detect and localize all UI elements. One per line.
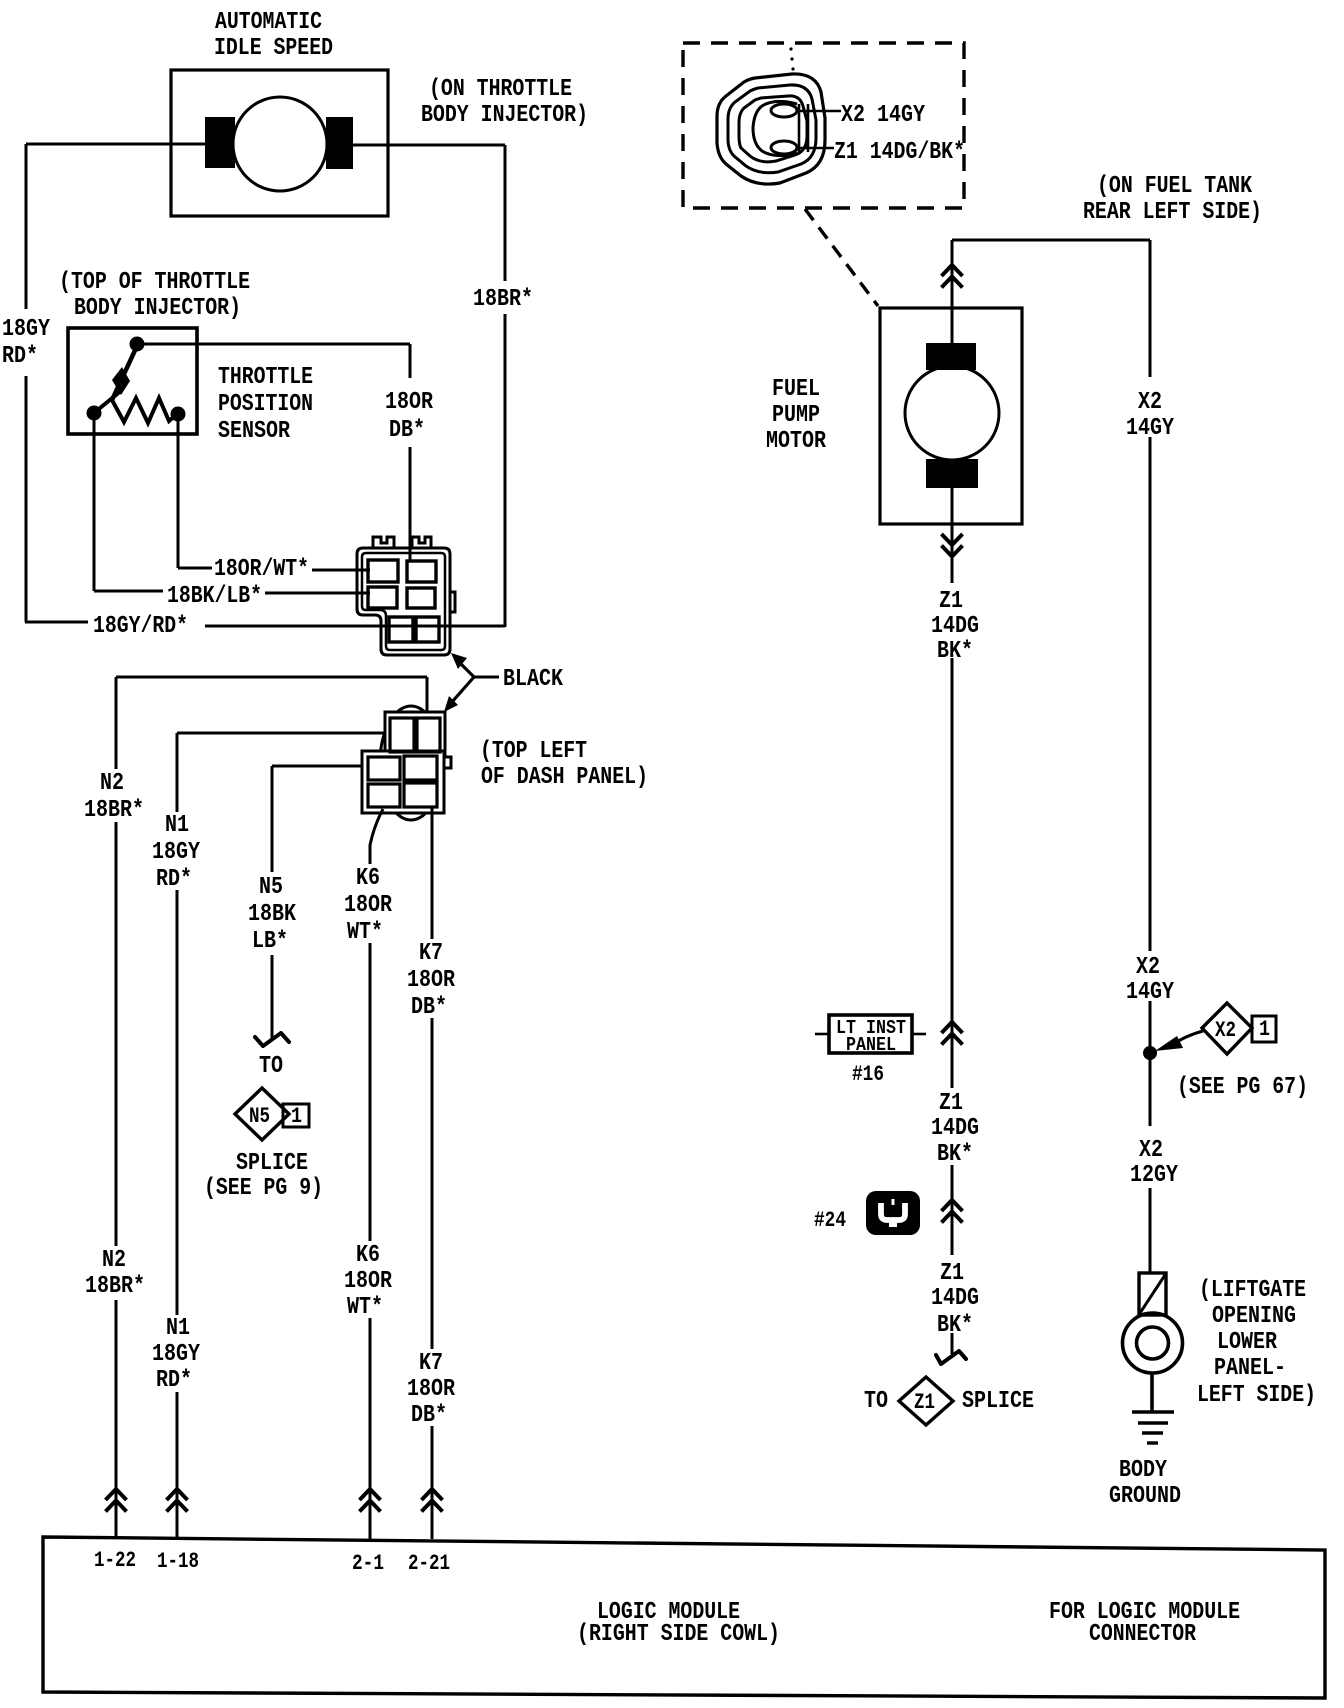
label BLACK with arrows to connectors bbox=[444, 653, 563, 712]
svg-text:X2 14GY: X2 14GY bbox=[841, 102, 925, 129]
svg-text:18OR: 18OR bbox=[385, 389, 433, 416]
svg-text:THROTTLE: THROTTLE bbox=[218, 364, 313, 391]
connector C1 (black 6-way) bbox=[357, 537, 455, 655]
svg-text:PUMP: PUMP bbox=[772, 402, 820, 429]
svg-text:TO: TO bbox=[259, 1053, 283, 1080]
svg-text:(SEE PG 67): (SEE PG 67) bbox=[1177, 1074, 1308, 1101]
ring terminal (liftgate ground) bbox=[1123, 1273, 1183, 1373]
svg-text:Z1: Z1 bbox=[940, 1260, 964, 1287]
svg-text:14DG: 14DG bbox=[931, 1115, 979, 1142]
note (ON FUEL TANK REAR LEFT SIDE) bbox=[1083, 173, 1262, 226]
svg-text:Z1: Z1 bbox=[914, 1390, 935, 1415]
label Z1 14DG BK* (2) bbox=[931, 1090, 979, 1168]
wire Z1 long vertical bbox=[942, 658, 963, 1088]
junction to connector X2-1 bbox=[1143, 1046, 1157, 1060]
svg-text:18BK: 18BK bbox=[248, 901, 296, 928]
svg-text:SENSOR: SENSOR bbox=[218, 418, 290, 445]
label X2 14GY (1) bbox=[1126, 389, 1174, 442]
wire N5 18BK LB* vertical bbox=[271, 766, 274, 1039]
svg-text:MOTOR: MOTOR bbox=[766, 428, 826, 455]
connector C2 (black 6-way, top left of dash panel) bbox=[362, 706, 451, 820]
svg-text:18BK/LB*: 18BK/LB* bbox=[167, 583, 262, 610]
svg-text:BODY: BODY bbox=[1119, 1457, 1167, 1484]
svg-text:#16: #16 bbox=[852, 1062, 884, 1087]
svg-text:N2: N2 bbox=[100, 770, 124, 797]
svg-text:BLACK: BLACK bbox=[503, 666, 563, 693]
svg-text:18BR*: 18BR* bbox=[473, 286, 533, 313]
label N1 18GY RD* (lower) bbox=[152, 1315, 200, 1394]
label 18BK/LB* bbox=[167, 583, 262, 610]
label 18BR* (right wire) bbox=[473, 286, 533, 313]
label FUEL PUMP MOTOR bbox=[766, 376, 826, 455]
svg-text:X2: X2 bbox=[1138, 389, 1162, 416]
svg-text:N2: N2 bbox=[102, 1247, 126, 1274]
svg-text:1-22: 1-22 bbox=[94, 1548, 136, 1573]
wire to body ground bbox=[1150, 1373, 1154, 1412]
note (ON THROTTLE BODY INJECTOR) bbox=[421, 76, 588, 129]
svg-text:SPLICE: SPLICE bbox=[962, 1388, 1034, 1415]
pin 2-1 bbox=[352, 1551, 384, 1576]
svg-text:18OR: 18OR bbox=[407, 967, 455, 994]
svg-text:K6: K6 bbox=[356, 1242, 380, 1269]
svg-text:18OR: 18OR bbox=[407, 1376, 455, 1403]
svg-text:18BR*: 18BR* bbox=[84, 797, 144, 824]
svg-text:K7: K7 bbox=[419, 1350, 443, 1377]
svg-text:(LIFTGATE: (LIFTGATE bbox=[1199, 1277, 1306, 1304]
fuel pump motor bbox=[880, 308, 1022, 524]
label N2 18BR* (upper) bbox=[84, 770, 144, 824]
label TO bbox=[259, 1053, 283, 1080]
C1 top tabs bbox=[373, 537, 394, 548]
label K6 18OR WT* (lower) bbox=[344, 1242, 392, 1321]
svg-text:N5: N5 bbox=[249, 1104, 270, 1129]
svg-text:OF DASH PANEL): OF DASH PANEL) bbox=[481, 764, 648, 791]
wire 18OR/WT* from TPS right terminal bbox=[178, 420, 370, 570]
svg-text:BK*: BK* bbox=[937, 1312, 973, 1339]
svg-text:TO: TO bbox=[864, 1388, 888, 1415]
svg-text:K7: K7 bbox=[419, 940, 443, 967]
svg-text:LOWER: LOWER bbox=[1217, 1329, 1277, 1356]
fuel pump connector face bbox=[717, 47, 825, 184]
wire N2 horizontal to connector C2 bbox=[116, 677, 427, 720]
splice reference N5-1 bbox=[235, 1088, 309, 1140]
wire N1 18GY RD* vertical bbox=[167, 733, 188, 1539]
TPS resistor element bbox=[94, 390, 122, 413]
label SPLICE (SEE PG 9) bbox=[204, 1150, 323, 1202]
svg-text:RD*: RD* bbox=[2, 343, 38, 370]
svg-text:#24: #24 bbox=[814, 1208, 846, 1233]
svg-text:X2: X2 bbox=[1136, 954, 1160, 981]
svg-text:LB*: LB* bbox=[252, 928, 288, 955]
svg-text:18GY: 18GY bbox=[2, 316, 50, 343]
svg-text:CONNECTOR: CONNECTOR bbox=[1089, 1621, 1196, 1648]
svg-text:PANEL: PANEL bbox=[846, 1034, 896, 1056]
connector ref X2-1 bbox=[1155, 1003, 1276, 1054]
svg-text:OPENING: OPENING bbox=[1212, 1303, 1296, 1330]
svg-text:PANEL-: PANEL- bbox=[1214, 1355, 1286, 1382]
leader and label X2 14GY (connector face) bbox=[797, 102, 925, 129]
wire fuel pump feed (top) bbox=[942, 240, 963, 350]
svg-text:14GY: 14GY bbox=[1126, 979, 1174, 1006]
splice reference Z1 bbox=[899, 1377, 953, 1425]
svg-text:2-21: 2-21 bbox=[408, 1551, 450, 1576]
body ground symbol bbox=[1132, 1412, 1174, 1443]
svg-text:18GY/RD*: 18GY/RD* bbox=[93, 613, 188, 640]
svg-text:18GY: 18GY bbox=[152, 1341, 200, 1368]
svg-text:LEFT SIDE): LEFT SIDE) bbox=[1197, 1382, 1316, 1409]
C1 pins bbox=[368, 560, 398, 582]
svg-text:AUTOMATIC: AUTOMATIC bbox=[215, 9, 322, 36]
svg-text:DB*: DB* bbox=[411, 1402, 447, 1429]
label K7 18OR DB* (lower) bbox=[407, 1350, 455, 1429]
svg-text:WT*: WT* bbox=[347, 1294, 383, 1321]
label THROTTLE POSITION SENSOR bbox=[218, 364, 313, 445]
wire N2 18BR* vertical bbox=[106, 677, 127, 1539]
svg-text:(TOP LEFT: (TOP LEFT bbox=[480, 738, 587, 765]
svg-text:Z1: Z1 bbox=[939, 588, 963, 615]
wire N1 horizontal to connector C2 bbox=[177, 732, 393, 735]
wire 18OR DB* from TPS wiper to connector C1 bbox=[143, 344, 410, 562]
label SPLICE bbox=[962, 1388, 1034, 1415]
dashed detail box (fuel pump connector face) bbox=[683, 43, 964, 208]
svg-text:BODY INJECTOR): BODY INJECTOR) bbox=[74, 295, 241, 322]
label N1 18GY RD* (upper) bbox=[152, 812, 200, 893]
label TO bbox=[864, 1388, 888, 1415]
pin 2-21 bbox=[408, 1551, 450, 1576]
note (TOP OF THROTTLE BODY INJECTOR) bbox=[59, 269, 250, 322]
svg-text:2-1: 2-1 bbox=[352, 1551, 384, 1576]
wire 18BR* from AIS motor right pin bbox=[350, 145, 505, 627]
svg-text:N5: N5 bbox=[259, 874, 283, 901]
svg-text:REAR LEFT SIDE): REAR LEFT SIDE) bbox=[1083, 199, 1262, 226]
connector ref LT INST PANEL #16 bbox=[815, 1015, 926, 1087]
svg-text:POSITION: POSITION bbox=[218, 391, 313, 418]
svg-text:K6: K6 bbox=[356, 865, 380, 892]
label 18GY RD* (left) bbox=[2, 316, 50, 370]
throttle position sensor TPS bbox=[68, 328, 197, 434]
leader and label Z1 14DG/BK* (connector face) bbox=[797, 139, 965, 166]
grommet #24 bbox=[814, 1191, 920, 1235]
dashed leader from detail box to fuel pump bbox=[805, 209, 878, 306]
TPS terminal dots bbox=[130, 337, 145, 352]
svg-text:DB*: DB* bbox=[389, 417, 425, 444]
svg-text:12GY: 12GY bbox=[1130, 1162, 1178, 1189]
wire 18GY/RD* from AIS motor left pin bbox=[25, 144, 505, 626]
label N5 18BK LB* bbox=[248, 874, 296, 955]
svg-text:1: 1 bbox=[291, 1104, 302, 1129]
svg-text:18BR*: 18BR* bbox=[85, 1273, 145, 1300]
label K7 18OR DB* (upper) bbox=[407, 940, 455, 1021]
svg-text:FUEL: FUEL bbox=[772, 376, 820, 403]
label Z1 14DG BK* (1) bbox=[931, 588, 979, 665]
svg-text:N1: N1 bbox=[165, 812, 189, 839]
svg-text:DB*: DB* bbox=[411, 994, 447, 1021]
svg-text:RD*: RD* bbox=[156, 866, 192, 893]
label 18OR DB* bbox=[385, 389, 433, 444]
wire Z1 from fuel pump (down) bbox=[942, 488, 963, 583]
note (SEE PG 67) bbox=[1177, 1074, 1308, 1101]
note (LIFTGATE OPENING LOWER PANEL- LEFT SIDE) bbox=[1197, 1277, 1316, 1409]
svg-text:BK*: BK* bbox=[937, 1141, 973, 1168]
svg-text:18OR: 18OR bbox=[344, 1268, 392, 1295]
label K6 18OR WT* (upper) bbox=[344, 865, 392, 946]
pin 1-22 bbox=[94, 1548, 136, 1573]
svg-text:Z1 14DG/BK*: Z1 14DG/BK* bbox=[834, 139, 965, 166]
label FOR LOGIC MODULE CONNECTOR bbox=[1049, 1599, 1240, 1648]
label N2 18BR* (lower) bbox=[85, 1247, 145, 1300]
svg-text:GROUND: GROUND bbox=[1109, 1483, 1181, 1510]
label Z1 14DG BK* (3) bbox=[931, 1260, 979, 1339]
label LOGIC MODULE (RIGHT SIDE COWL) bbox=[577, 1599, 780, 1648]
wire X2 14GY vertical bbox=[1149, 240, 1152, 1274]
svg-text:14GY: 14GY bbox=[1126, 415, 1174, 442]
wire 18BK/LB* from TPS left terminal bbox=[94, 420, 370, 593]
svg-text:14DG: 14DG bbox=[931, 613, 979, 640]
svg-text:(ON THROTTLE: (ON THROTTLE bbox=[429, 76, 572, 103]
wire Z1 segment with in-line connector bbox=[942, 1165, 963, 1255]
AIS motor M1 (automatic idle speed) bbox=[171, 70, 388, 216]
svg-text:Z1: Z1 bbox=[939, 1090, 963, 1117]
label BODY GROUND bbox=[1109, 1457, 1181, 1510]
svg-text:(TOP OF THROTTLE: (TOP OF THROTTLE bbox=[59, 269, 250, 296]
svg-text:1-18: 1-18 bbox=[157, 1549, 199, 1574]
wire break symbol Z1 bbox=[936, 1333, 966, 1364]
C1 side latch bbox=[450, 592, 455, 612]
svg-text:(RIGHT SIDE COWL): (RIGHT SIDE COWL) bbox=[577, 1621, 780, 1648]
wire K6 18OR WT* vertical bbox=[360, 809, 384, 1539]
svg-text:X2: X2 bbox=[1139, 1137, 1163, 1164]
logic module box bbox=[43, 1537, 1325, 1698]
label X2 12GY bbox=[1130, 1137, 1178, 1189]
svg-text:BK*: BK* bbox=[937, 638, 973, 665]
svg-text:14DG: 14DG bbox=[931, 1285, 979, 1312]
wire N5 horizontal to connector C2 bbox=[272, 765, 371, 768]
svg-text:IDLE SPEED: IDLE SPEED bbox=[214, 35, 333, 62]
wire K7 18OR DB* vertical bbox=[422, 807, 443, 1539]
svg-text:X2: X2 bbox=[1215, 1018, 1236, 1043]
svg-text:18OR/WT*: 18OR/WT* bbox=[214, 556, 309, 583]
label 18OR/WT* bbox=[214, 556, 309, 583]
TPS wiper arm bbox=[112, 346, 137, 400]
svg-text:RD*: RD* bbox=[156, 1367, 192, 1394]
svg-text:(SEE PG 9): (SEE PG 9) bbox=[204, 1175, 323, 1202]
svg-text:1: 1 bbox=[1259, 1017, 1270, 1042]
label AUTOMATIC IDLE SPEED bbox=[214, 9, 333, 62]
pin 1-18 bbox=[157, 1549, 199, 1574]
wire break symbol N5 bbox=[255, 1033, 289, 1046]
wire across top to X2 bbox=[952, 239, 1150, 242]
svg-text:N1: N1 bbox=[166, 1315, 190, 1342]
svg-text:SPLICE: SPLICE bbox=[236, 1150, 308, 1177]
svg-text:18GY: 18GY bbox=[152, 839, 200, 866]
svg-text:WT*: WT* bbox=[347, 919, 383, 946]
label X2 14GY (2) bbox=[1126, 954, 1174, 1006]
svg-text:(ON FUEL TANK: (ON FUEL TANK bbox=[1097, 173, 1252, 200]
note (TOP LEFT OF DASH PANEL) bbox=[480, 738, 648, 791]
svg-text:BODY INJECTOR): BODY INJECTOR) bbox=[421, 102, 588, 129]
label 18GY/RD* bbox=[93, 613, 188, 640]
svg-text:18OR: 18OR bbox=[344, 892, 392, 919]
